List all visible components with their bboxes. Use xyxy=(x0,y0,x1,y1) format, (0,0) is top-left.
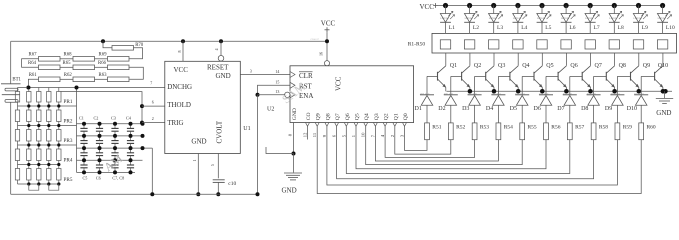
wire R70 to row1 xyxy=(129,48,143,59)
junction cap grid xyxy=(82,122,86,126)
svg-text:THOLD: THOLD xyxy=(167,101,191,109)
wire row1 a xyxy=(95,58,108,60)
junction Q10 emitter gnd xyxy=(663,89,668,94)
junction PR grid xyxy=(37,163,40,166)
svg-text:GND: GND xyxy=(191,138,206,146)
junction PR grid xyxy=(47,104,50,107)
svg-text:R64: R64 xyxy=(28,61,37,66)
wire base Q5 to D5 xyxy=(521,76,523,94)
resistor left chain 2 xyxy=(15,106,19,126)
wire R57 to U2 pin 5 xyxy=(346,126,570,173)
svg-text:GND: GND xyxy=(292,108,298,120)
junction cap grid xyxy=(113,170,117,174)
svg-text:Q4: Q4 xyxy=(364,113,370,120)
junction cap grid xyxy=(113,122,117,126)
wire row2 a xyxy=(60,66,73,68)
svg-text:GND: GND xyxy=(216,72,231,80)
transistor Q8 xyxy=(594,53,626,91)
wire base Q4 to D4 xyxy=(497,76,499,94)
transistor Q3 xyxy=(475,53,506,91)
wire emitter rail xyxy=(447,90,673,92)
label PR3 xyxy=(64,138,73,144)
resistor left chain 1 xyxy=(15,88,19,107)
capacitor grid cap 2 xyxy=(96,124,103,136)
svg-text:C5: C5 xyxy=(83,176,88,181)
resistor R53 xyxy=(472,123,489,140)
svg-text:U2: U2 xyxy=(267,107,274,113)
U1 label DNCHG xyxy=(167,83,192,91)
U2 label VCC inside xyxy=(335,76,343,91)
resistor network element 7 xyxy=(585,40,595,49)
svg-text:LED5M: LED5M xyxy=(441,17,450,20)
junction LED L5 rail xyxy=(539,3,544,8)
junction LED L8 rail xyxy=(612,3,617,8)
resistor R55 xyxy=(520,123,537,140)
U2 label RST xyxy=(299,83,313,91)
LED L6 xyxy=(561,6,576,34)
svg-text:RESET: RESET xyxy=(207,64,229,72)
label PR1 xyxy=(64,99,73,105)
U2 pin label Q0 xyxy=(403,113,409,120)
svg-text:R52: R52 xyxy=(456,124,465,130)
junction LED L10 rail xyxy=(660,3,665,8)
svg-text:LED5M: LED5M xyxy=(634,17,643,20)
LED L10 xyxy=(657,6,675,34)
wire R53 to U2 pin 4 xyxy=(385,126,475,157)
wire rst-ena to ground xyxy=(257,95,259,195)
svg-text:CVOLT: CVOLT xyxy=(216,120,224,143)
U1 label THOLD xyxy=(167,101,191,109)
svg-text:D2: D2 xyxy=(438,106,445,112)
capacitor grid cap 13 xyxy=(80,160,87,172)
junction LED L7 rail xyxy=(588,3,593,8)
U1 label VCC xyxy=(174,66,189,74)
svg-text:LED5M: LED5M xyxy=(658,17,667,20)
svg-text:10: 10 xyxy=(361,132,366,137)
resistor R58 xyxy=(591,123,608,140)
svg-text:C3: C3 xyxy=(111,116,116,121)
svg-text:R53: R53 xyxy=(480,124,489,130)
svg-text:L10: L10 xyxy=(666,25,675,31)
resistor network element 1 xyxy=(440,40,450,49)
svg-text:Q7: Q7 xyxy=(595,63,602,69)
pin 15 label xyxy=(275,79,279,84)
preset PR3 element 3 xyxy=(47,126,51,146)
junction PR grid xyxy=(27,124,30,127)
faint part smudge xyxy=(311,38,320,41)
wire VCC top rail xyxy=(11,40,327,42)
wire cap grid left vertical xyxy=(76,88,78,173)
capacitor grid cap 4 xyxy=(127,124,134,136)
svg-text:R1-R50: R1-R50 xyxy=(408,41,426,47)
svg-text:LED5M: LED5M xyxy=(513,17,522,20)
junction cap grid xyxy=(129,122,133,126)
counter U2 body xyxy=(290,66,414,123)
resistor R50 xyxy=(639,123,656,140)
diode D3 xyxy=(462,93,482,123)
junction PR grid xyxy=(27,163,30,166)
wire PR rail xyxy=(18,144,77,146)
junction cap grid xyxy=(129,158,133,162)
preset PR2 element 4 xyxy=(57,106,61,126)
wire THOLD to U1 xyxy=(142,105,165,107)
svg-text:1: 1 xyxy=(192,160,197,162)
resistor R61 xyxy=(29,73,60,82)
wire base Q8 to D8 xyxy=(593,76,595,94)
U2 pin label GND xyxy=(292,108,298,120)
svg-text:4001 4001: 4001 4001 xyxy=(515,93,526,95)
wire pin8 gnd left xyxy=(266,147,294,154)
wire battery negative xyxy=(10,102,12,194)
preset PR4 element 2 xyxy=(37,145,41,165)
wire cap rail 5 xyxy=(77,171,136,173)
junction PR grid xyxy=(27,104,30,107)
junction Q2 emitter xyxy=(468,89,473,94)
svg-text:3: 3 xyxy=(250,68,252,73)
svg-text:Q8: Q8 xyxy=(325,113,331,120)
U2 ena marker xyxy=(290,92,295,98)
svg-text:4: 4 xyxy=(214,49,219,51)
U2 output pin 11 xyxy=(312,123,319,138)
capacitor grid cap 9 xyxy=(80,148,87,160)
U2 output pin 9 xyxy=(322,123,329,138)
junction PR grid xyxy=(47,143,50,146)
resistor network element 4 xyxy=(513,40,523,49)
U2 rst marker xyxy=(290,82,295,88)
label PR5 xyxy=(64,177,73,183)
svg-text:Q1: Q1 xyxy=(393,113,399,120)
svg-text:L4: L4 xyxy=(521,25,527,31)
U2 output pin 5 xyxy=(341,123,348,138)
resistor network element 6 xyxy=(561,40,571,49)
U2 pin label Q6 xyxy=(345,113,351,120)
svg-text:4001 4001: 4001 4001 xyxy=(420,93,431,95)
U1 label GND bottom xyxy=(191,138,206,146)
U2 output pin 12 xyxy=(303,123,310,138)
U2 pin label Q9 xyxy=(316,113,322,120)
junction cap grid xyxy=(98,170,102,174)
junction cap grid xyxy=(82,146,86,150)
junction U1 vcc xyxy=(181,39,185,43)
junction PR grid xyxy=(47,163,50,166)
svg-text:D8: D8 xyxy=(581,106,588,112)
wire base Q9 to D9 xyxy=(616,76,618,94)
svg-text:VCC: VCC xyxy=(335,76,343,91)
junction U2 vcc rail xyxy=(325,39,329,43)
U2 output pin 6 xyxy=(332,123,339,138)
preset PR4 element 1 xyxy=(27,145,31,165)
power VCC leds xyxy=(420,3,439,11)
svg-text:GND: GND xyxy=(282,187,297,195)
wire U1 gnd pin 1 xyxy=(192,154,198,195)
junction LED L4 rail xyxy=(515,3,520,8)
svg-text:Q5: Q5 xyxy=(355,113,361,120)
wire row3 a xyxy=(95,78,108,80)
U2 label CLR xyxy=(299,72,313,80)
svg-text:11: 11 xyxy=(312,132,317,137)
wire U1 output pin 3 xyxy=(240,68,290,74)
preset PR5 element 3 xyxy=(47,165,51,185)
junction PR grid xyxy=(57,182,60,185)
wire battery positive xyxy=(10,41,12,84)
resistor R63 xyxy=(99,73,130,82)
junction LED L9 rail xyxy=(636,3,641,8)
resistor left chain 5 xyxy=(15,165,19,185)
junction PR grid xyxy=(37,182,40,185)
wire R59 to U2 pin 9 xyxy=(327,126,618,185)
svg-text:4001 4001: 4001 4001 xyxy=(491,93,502,95)
junction node chain top xyxy=(101,39,105,43)
junction pin8 gnd xyxy=(292,152,296,156)
svg-text:4001 4001: 4001 4001 xyxy=(610,93,621,95)
diode D4 xyxy=(486,93,506,123)
resistor network element 3 xyxy=(489,40,499,49)
preset PR1 element 2 xyxy=(37,88,41,107)
wire R55 to U2 pin 10 xyxy=(366,126,523,164)
ground symbol U2 xyxy=(282,154,303,195)
svg-text:Q9: Q9 xyxy=(316,113,322,120)
junction cap grid xyxy=(113,158,117,162)
junction cap grid xyxy=(82,158,86,162)
svg-text:PR3: PR3 xyxy=(64,138,73,144)
diode D5 xyxy=(510,93,530,123)
svg-text:2: 2 xyxy=(152,116,154,121)
resistor network element 2 xyxy=(464,40,474,49)
diode D6 xyxy=(534,93,554,123)
capacitor grid cap 15 xyxy=(111,160,118,172)
wire PR rail top left xyxy=(18,87,29,89)
wire bottom rail xyxy=(11,193,258,195)
svg-text:R54: R54 xyxy=(504,124,513,130)
svg-text:Q2: Q2 xyxy=(474,63,481,69)
svg-text:Q10: Q10 xyxy=(658,63,668,69)
preset PR3 element 1 xyxy=(27,126,31,146)
capacitor grid cap 1 xyxy=(80,124,87,136)
resistor R68 xyxy=(64,53,95,62)
resistor R51 xyxy=(425,123,442,140)
junction c10 rail xyxy=(216,192,220,196)
svg-text:Q3: Q3 xyxy=(374,113,380,120)
preset PR5 element 4 xyxy=(57,165,61,185)
svg-text:R62: R62 xyxy=(64,73,73,78)
junction PR grid xyxy=(37,104,40,107)
junction cap right 2 xyxy=(141,134,145,138)
U2 output pin 7 xyxy=(370,123,377,138)
junction PR grid xyxy=(57,124,60,127)
wire U2 pin 12 stub xyxy=(307,126,309,139)
svg-text:R56: R56 xyxy=(551,124,560,130)
preset PR3 element 2 xyxy=(37,126,41,146)
junction Q7 emitter xyxy=(588,89,593,94)
svg-text:4001 4001: 4001 4001 xyxy=(634,93,645,95)
junction Q8 emitter xyxy=(612,89,617,94)
U2 output pin 10 xyxy=(361,123,368,138)
resistor network R1-R50 box xyxy=(432,33,677,53)
capacitor grid cap 10 xyxy=(96,148,103,160)
svg-text:Q7: Q7 xyxy=(335,113,341,120)
junction Q4 emitter xyxy=(516,89,521,94)
wire row1 b xyxy=(60,58,73,60)
svg-text:Q8: Q8 xyxy=(619,63,626,69)
svg-text:4001 4001: 4001 4001 xyxy=(467,93,478,95)
resistor network element 5 xyxy=(537,40,547,49)
transistor Q2 xyxy=(451,53,481,91)
junction PR grid xyxy=(57,143,60,146)
transistor Q7 xyxy=(570,53,602,91)
wire row2 to row3 xyxy=(129,67,143,79)
svg-text:TRIG: TRIG xyxy=(167,119,183,127)
svg-text:LED5M: LED5M xyxy=(537,17,546,20)
svg-text:R69: R69 xyxy=(99,53,108,58)
svg-text:8: 8 xyxy=(177,51,182,53)
LED L1 xyxy=(440,6,455,34)
junction PR grid xyxy=(47,182,50,185)
resistor R59 xyxy=(615,123,632,140)
wire to R70 xyxy=(103,41,112,48)
preset PR5 element 1 xyxy=(27,165,31,185)
transistor Q9 xyxy=(617,53,650,91)
svg-text:D4: D4 xyxy=(486,106,493,112)
svg-text:R51: R51 xyxy=(432,124,441,130)
pin 2 label xyxy=(152,116,154,121)
wire U2 pin 8 xyxy=(287,123,293,154)
wire R58 to U2 pin 6 xyxy=(337,126,594,179)
transistor Q1 xyxy=(427,53,457,91)
junction PR grid xyxy=(27,143,30,146)
junction PR grid xyxy=(27,182,30,185)
svg-text:6: 6 xyxy=(152,99,154,104)
U2 pin16 bubble xyxy=(324,61,329,66)
wire TRIG to U1 xyxy=(142,122,165,124)
wire base Q3 to D3 xyxy=(474,76,476,94)
capacitor grid cap 7 xyxy=(111,136,118,148)
U2 pin label Q7 xyxy=(335,113,341,120)
svg-text:CLR: CLR xyxy=(299,72,313,80)
svg-text:U1: U1 xyxy=(243,126,250,132)
wire Q10 emitter to ground xyxy=(664,91,666,98)
wire base Q10 to D10 xyxy=(640,76,642,94)
resistor R64 xyxy=(28,61,60,69)
svg-text:12: 12 xyxy=(303,132,308,137)
svg-text:DNCHG: DNCHG xyxy=(167,83,192,91)
svg-text:R55: R55 xyxy=(528,124,537,130)
wire cap rail3 to ground rail xyxy=(151,148,153,194)
junction cap grid xyxy=(98,158,102,162)
svg-text:PR4: PR4 xyxy=(64,158,73,164)
capacitor c10 xyxy=(213,180,237,195)
svg-text:LED5M: LED5M xyxy=(609,17,618,20)
wire U1 cvolt pin 5 xyxy=(210,154,219,179)
capacitor grid cap 5 xyxy=(80,136,87,148)
wire PR rail xyxy=(18,125,77,127)
svg-text:c10: c10 xyxy=(228,181,236,187)
label U1 xyxy=(243,126,250,132)
svg-text:R57: R57 xyxy=(575,124,584,130)
U1 label TRIG xyxy=(167,119,183,127)
resistor R57 xyxy=(567,123,584,140)
junction PR grid xyxy=(57,104,60,107)
LED L4 xyxy=(513,6,528,34)
resistor left chain 4 xyxy=(15,145,19,165)
svg-text:VCC: VCC xyxy=(174,66,189,74)
pin 7 label xyxy=(150,80,152,85)
resistor network element 10 xyxy=(657,40,667,49)
svg-text:L6: L6 xyxy=(569,25,575,31)
junction node discharge xyxy=(26,86,30,90)
U2 output pin 1 xyxy=(351,123,358,138)
preset PR4 element 4 xyxy=(57,145,61,165)
junction LED L3 rail xyxy=(491,3,496,8)
U2 pin label Q2 xyxy=(384,113,390,120)
junction cap left top xyxy=(75,86,79,90)
label C7 C8 xyxy=(112,176,124,182)
wire PR rail xyxy=(18,105,77,107)
resistor R56 xyxy=(544,123,561,140)
wire R51 to U2 pin 3 xyxy=(405,126,428,150)
svg-text:Q6: Q6 xyxy=(345,113,351,120)
svg-text:C1: C1 xyxy=(79,116,84,121)
wire discharge line to U1 pin7 xyxy=(28,87,164,89)
capacitor grid cap 12 xyxy=(127,148,134,160)
resistor left chain 3 xyxy=(15,126,19,146)
resistor R66 xyxy=(98,61,129,69)
junction cap-grid bottom rail xyxy=(150,192,154,196)
U2 pin label Q5 xyxy=(355,113,361,120)
svg-text:D1: D1 xyxy=(415,106,422,112)
svg-text:13: 13 xyxy=(275,89,279,94)
preset PR5 element 2 xyxy=(37,165,41,185)
resistor R69 xyxy=(99,53,130,62)
wire cap rail 3 xyxy=(77,147,153,149)
resistor network element 8 xyxy=(609,40,619,49)
svg-text:CD4017: CD4017 xyxy=(311,38,320,41)
label C2 xyxy=(94,116,99,121)
wire U1 vcc pin 8 xyxy=(177,41,183,61)
junction cap grid xyxy=(113,146,117,150)
resistor R62 xyxy=(64,73,95,82)
svg-text:PR1: PR1 xyxy=(64,99,73,105)
capacitor grid cap 11 xyxy=(111,148,118,160)
wire PR5 bottom jog b xyxy=(49,184,59,190)
power VCC U2 xyxy=(321,19,336,32)
wire PR rail xyxy=(18,164,61,166)
junction Q9 emitter xyxy=(637,89,642,94)
svg-text:Q4: Q4 xyxy=(522,63,529,69)
svg-text:R66: R66 xyxy=(98,61,107,66)
diode D10 xyxy=(627,93,649,123)
junction U1 reset xyxy=(219,39,223,43)
svg-text:R59: R59 xyxy=(623,124,632,130)
svg-text:R67: R67 xyxy=(29,53,38,58)
svg-text:R68: R68 xyxy=(64,53,73,58)
junction LED L6 rail xyxy=(564,3,569,8)
LED L5 xyxy=(537,6,552,34)
diode D1 xyxy=(415,93,435,123)
svg-text:R61: R61 xyxy=(29,73,38,78)
LED L9 xyxy=(633,6,648,34)
wire row3 to node xyxy=(28,79,38,87)
svg-text:L7: L7 xyxy=(594,25,600,31)
junction Q10 emitter xyxy=(661,89,666,94)
label C1 xyxy=(79,116,84,121)
svg-text:7: 7 xyxy=(150,80,152,85)
svg-text:L5: L5 xyxy=(545,25,551,31)
U1 label RESET xyxy=(207,64,229,72)
wire row2 b xyxy=(95,66,108,68)
wire base Q2 to D2 xyxy=(450,76,452,94)
wire R54 to U2 pin 7 xyxy=(375,126,498,161)
wire cap rail 4 xyxy=(77,159,143,161)
